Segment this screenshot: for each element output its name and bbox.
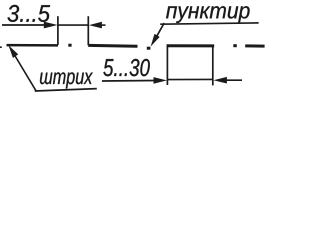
node: arrowhead pointing right at tick 3 [154, 77, 167, 84]
wire: dimension line of 5...30 [102, 80, 156, 83]
wire: stray speck at left edge [0, 46, 2, 48]
wire: dash segment 4 of dash-dot line [245, 44, 264, 47]
wire: extension tick 2 at start of dash 2 [87, 16, 89, 45]
wire: underline shelf of штрих [35, 89, 97, 91]
node: dot 1 of dash-dot line [68, 44, 71, 47]
wire: dash segment 1 of dash-dot line [7, 44, 59, 47]
node: arrowhead pointing left at tick 2 [89, 22, 102, 29]
wire: dimension line left part of 3...5 [2, 24, 46, 26]
node: dot 2 of dash-dot line (pointed at by leader) [147, 47, 151, 50]
wire: dimension line between tick 3 and tick 4 [167, 78, 212, 80]
wire: leader line from штрих shelf to arrowhead [13, 53, 36, 91]
wire: extension tick 1 at end of dash 1 [57, 16, 59, 45]
wire: underline shelf of пунктир [160, 23, 258, 24]
node: leader arrowhead pointing at dot 2 [151, 34, 160, 47]
node: arrowhead pointing right at tick 1 [44, 22, 58, 29]
node: arrowhead pointing left at tick 4 [213, 77, 227, 84]
node: leader arrowhead pointing at dash 1 [9, 45, 19, 58]
label: dimension text 3...5 [8, 5, 51, 22]
wire: dash segment 2 of dash-dot line [88, 44, 137, 48]
wire: extension tick 4 below right end of dash 3 [212, 45, 214, 86]
wire: dimension tail right of tick 4 [225, 79, 242, 81]
label: dimension text 5...30 [103, 59, 149, 76]
wire: dash segment 3 of dash-dot line (measured by 5...30) [167, 44, 214, 47]
label: leader text пунктир [166, 6, 250, 23]
node: dot 3 of dash-dot line [233, 44, 237, 47]
wire: dimension tail right of tick 2 [101, 24, 106, 26]
label: leader text штрих [40, 72, 93, 88]
wire: extension tick 3 below left end of dash 3 [166, 44, 168, 85]
wire: dimension line between ticks [58, 24, 88, 26]
wire: leader line from пунктир shelf [156, 23, 164, 37]
